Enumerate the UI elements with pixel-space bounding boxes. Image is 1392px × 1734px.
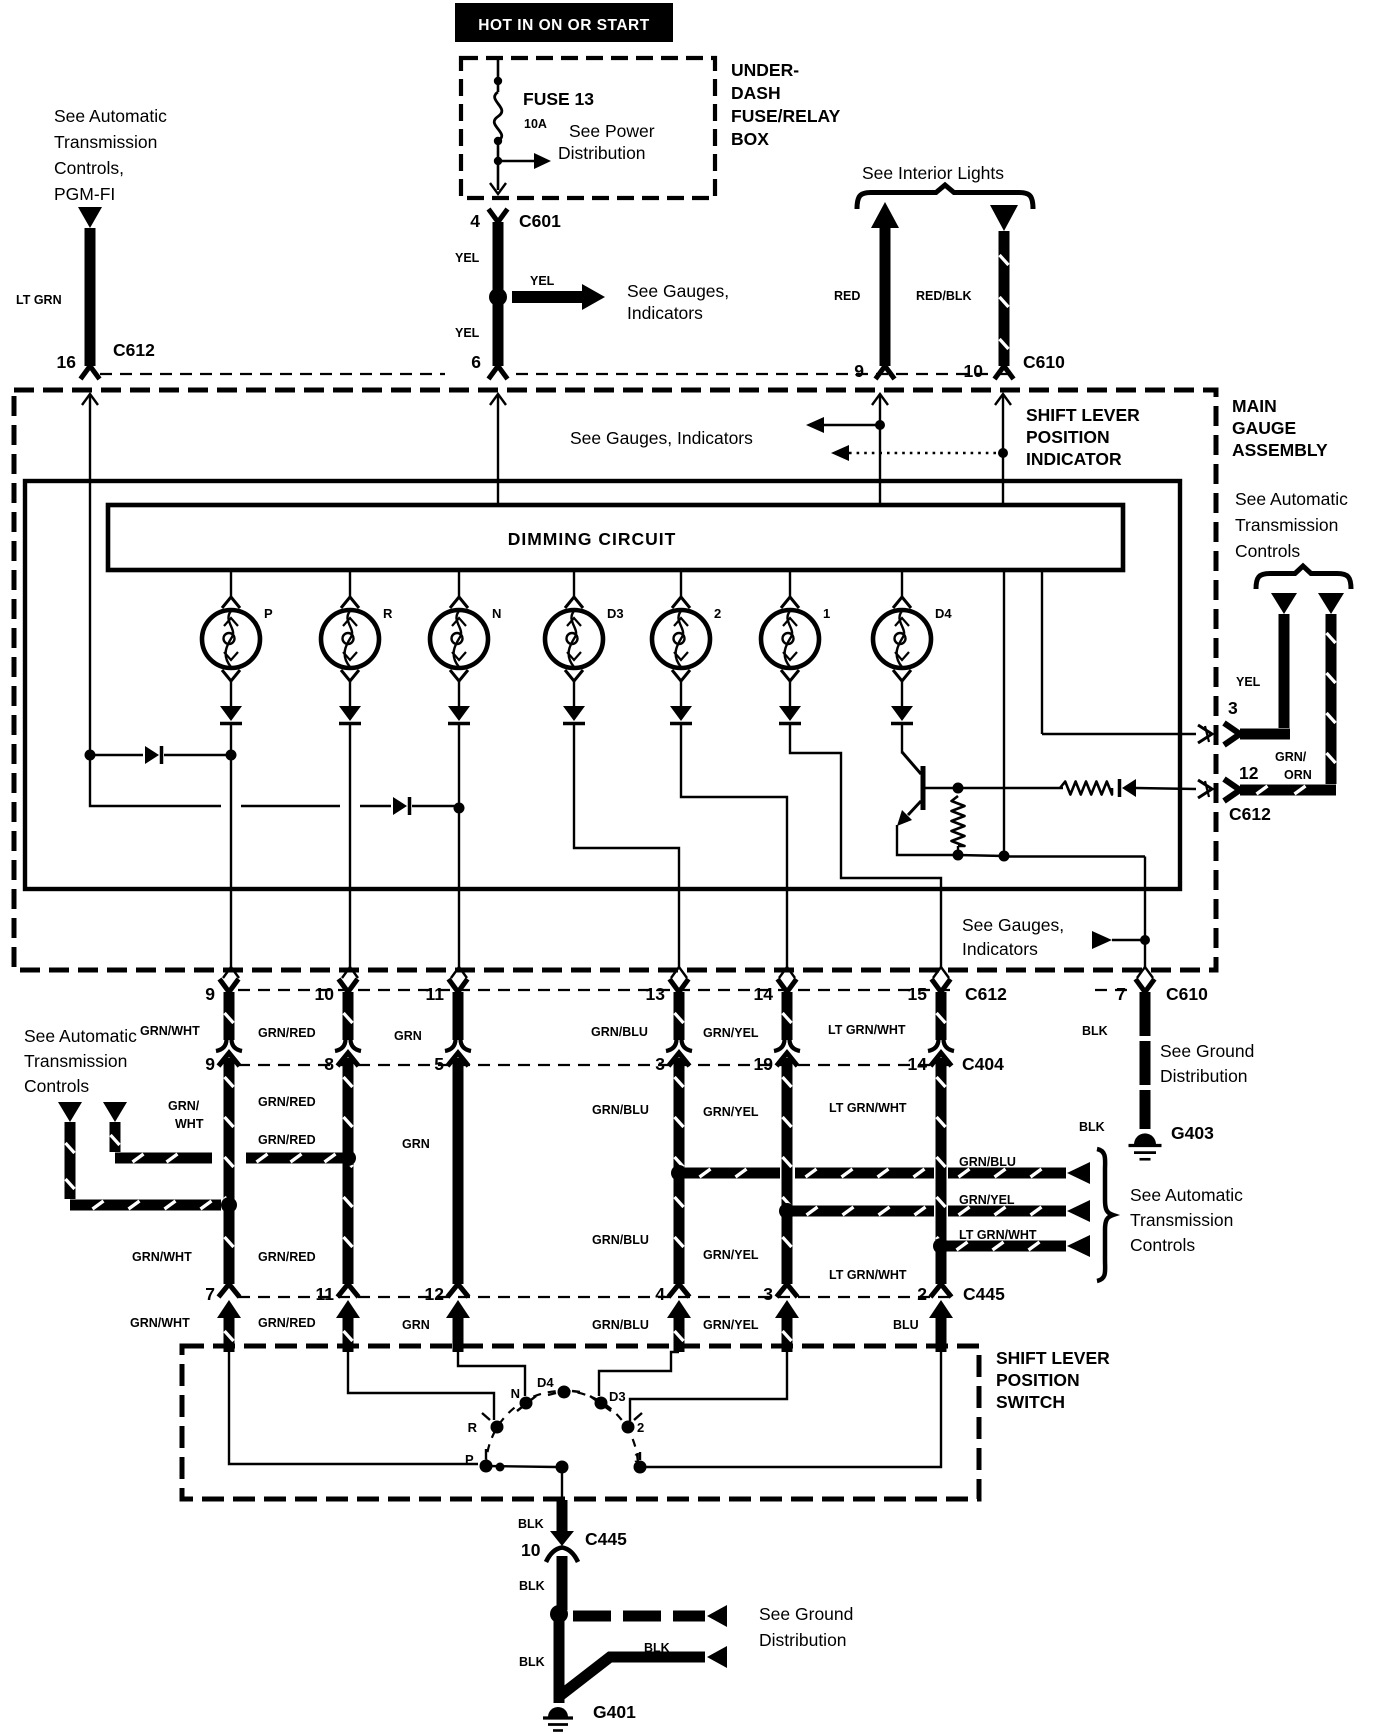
svg-text:7: 7 bbox=[1116, 984, 1126, 1004]
svg-text:ASSEMBLY: ASSEMBLY bbox=[1232, 440, 1328, 460]
svg-text:11: 11 bbox=[426, 984, 445, 1004]
diode below lamp D3 bbox=[563, 706, 585, 721]
svg-text:10: 10 bbox=[521, 1540, 541, 1560]
svg-text:See Automatic: See Automatic bbox=[1235, 489, 1348, 509]
junction bbox=[953, 783, 964, 794]
junction bbox=[550, 1605, 568, 1623]
wire YEL to C612-3 bbox=[1279, 614, 1290, 728]
svg-text:GAUGE: GAUGE bbox=[1232, 418, 1296, 438]
svg-text:2: 2 bbox=[637, 1420, 644, 1435]
diode below lamp D4 bbox=[891, 706, 913, 721]
wire dimming to lamp N bbox=[458, 570, 460, 597]
wire resistor chain to C612-3 bbox=[1041, 570, 1043, 734]
svg-text:10: 10 bbox=[315, 984, 335, 1004]
dimming circuit box bbox=[108, 505, 1123, 570]
wire GRN C612-11 to C404-5 bbox=[453, 992, 464, 1040]
diode D-c bbox=[1122, 779, 1136, 797]
junction bbox=[953, 850, 964, 861]
svg-text:DIMMING CIRCUIT: DIMMING CIRCUIT bbox=[508, 529, 677, 549]
inner gauge circuit box bbox=[25, 481, 1180, 889]
svg-text:14: 14 bbox=[754, 984, 774, 1004]
svg-text:GRN/BLU: GRN/BLU bbox=[959, 1155, 1016, 1169]
svg-text:N: N bbox=[511, 1386, 520, 1401]
wire from C601-6 into box bbox=[490, 394, 506, 405]
svg-text:C612: C612 bbox=[113, 340, 155, 360]
wire left bus from C612-16 bbox=[85, 750, 96, 761]
switch contact R bbox=[491, 1421, 504, 1434]
svg-text:ORN: ORN bbox=[1284, 768, 1312, 782]
svg-text:SHIFT LEVER: SHIFT LEVER bbox=[1026, 405, 1140, 425]
svg-text:Distribution: Distribution bbox=[759, 1630, 847, 1650]
svg-text:D4: D4 bbox=[935, 606, 952, 621]
svg-text:P: P bbox=[264, 606, 273, 621]
svg-text:C612: C612 bbox=[1229, 804, 1271, 824]
svg-text:2: 2 bbox=[714, 606, 721, 621]
svg-text:4: 4 bbox=[470, 211, 480, 231]
svg-text:See Automatic: See Automatic bbox=[54, 106, 167, 126]
wire lamp P to diode bbox=[230, 681, 232, 706]
wire GRN/WHT C612-9 to C404-9 bbox=[224, 992, 235, 1040]
wire lamp 2 column jog bbox=[681, 724, 787, 968]
svg-text:Transmission: Transmission bbox=[1130, 1210, 1233, 1230]
svg-text:3: 3 bbox=[655, 1054, 665, 1074]
svg-text:5: 5 bbox=[434, 1054, 444, 1074]
svg-text:GRN/BLU: GRN/BLU bbox=[592, 1318, 649, 1332]
wire C445-7 to switch P bbox=[229, 1352, 478, 1464]
svg-text:6: 6 bbox=[471, 352, 481, 372]
svg-text:BLK: BLK bbox=[644, 1641, 670, 1655]
brace bbox=[1256, 566, 1351, 589]
svg-text:BLK: BLK bbox=[519, 1579, 545, 1593]
brace bbox=[1097, 1149, 1113, 1281]
svg-text:14: 14 bbox=[908, 1054, 928, 1074]
svg-text:C445: C445 bbox=[963, 1284, 1005, 1304]
wire GRN/BLU C612-13 to C404-3 bbox=[674, 992, 685, 1040]
lamp N bbox=[430, 610, 488, 668]
wire C445-12 to switch N bbox=[458, 1352, 525, 1396]
svg-text:RED/BLK: RED/BLK bbox=[916, 289, 972, 303]
svg-text:BLK: BLK bbox=[519, 1655, 545, 1669]
svg-text:GRN/YEL: GRN/YEL bbox=[703, 1105, 759, 1119]
wire YEL junction to C601 pin 6 bbox=[493, 303, 504, 366]
svg-text:Controls,: Controls, bbox=[54, 158, 124, 178]
svg-text:13: 13 bbox=[646, 984, 666, 1004]
wire dashed BLK to See Ground Distribution bbox=[573, 1611, 705, 1622]
svg-text:9: 9 bbox=[205, 1054, 215, 1074]
wire YEL C601-4 to junction bbox=[493, 222, 504, 292]
main gauge assembly box (dashed) bbox=[14, 390, 1216, 970]
svg-text:G401: G401 bbox=[593, 1702, 636, 1722]
wire BLK branch to See Ground Distribution bbox=[561, 1657, 705, 1695]
svg-text:See Gauges,: See Gauges, bbox=[627, 281, 729, 301]
svg-text:Indicators: Indicators bbox=[962, 939, 1038, 959]
svg-text:3: 3 bbox=[1228, 698, 1238, 718]
junction bbox=[1140, 935, 1150, 945]
wire YEL arrow to See Gauges Indicators bbox=[512, 291, 582, 303]
shift lever position switch box (dashed) bbox=[182, 1346, 979, 1499]
svg-text:See Ground: See Ground bbox=[759, 1604, 853, 1624]
junction bbox=[671, 1165, 687, 1181]
svg-text:16: 16 bbox=[57, 352, 77, 372]
wire LT GRN/WHT C404-14 to C445-2 bbox=[936, 1058, 947, 1284]
svg-text:See Interior Lights: See Interior Lights bbox=[862, 163, 1004, 183]
svg-text:GRN: GRN bbox=[394, 1029, 422, 1043]
wire GRN/YEL branch to ATC bbox=[792, 1206, 934, 1217]
svg-text:POSITION: POSITION bbox=[1026, 427, 1110, 447]
wire GRN/BLU C404-3 to C445-4 bbox=[674, 1058, 685, 1284]
wire lamp R column to pin 10 bbox=[349, 724, 351, 968]
svg-text:GRN: GRN bbox=[402, 1137, 430, 1151]
svg-text:12: 12 bbox=[425, 1284, 445, 1304]
transistor Q1 bbox=[921, 766, 926, 810]
svg-text:LT GRN/WHT: LT GRN/WHT bbox=[959, 1228, 1037, 1242]
svg-text:C601: C601 bbox=[519, 211, 561, 231]
switch contact 1 bbox=[634, 1461, 647, 1474]
svg-text:D4: D4 bbox=[537, 1375, 554, 1390]
svg-text:GRN/BLU: GRN/BLU bbox=[592, 1103, 649, 1117]
svg-text:BLK: BLK bbox=[518, 1517, 544, 1531]
svg-text:19: 19 bbox=[754, 1054, 774, 1074]
wire GRN/WHT C404-9 to C445-7 bbox=[224, 1058, 235, 1284]
svg-text:GRN/WHT: GRN/WHT bbox=[140, 1024, 200, 1038]
wire node to C610-7 bbox=[1144, 857, 1146, 968]
wire from C612-16 into box bbox=[82, 394, 98, 405]
junction bbox=[933, 1238, 949, 1254]
svg-text:GRN/YEL: GRN/YEL bbox=[959, 1193, 1015, 1207]
svg-text:GRN/RED: GRN/RED bbox=[258, 1316, 316, 1330]
svg-text:G403: G403 bbox=[1171, 1123, 1214, 1143]
junction bbox=[489, 288, 507, 306]
resistor R2 (base-emitter) bbox=[952, 796, 965, 846]
under-dash fuse/relay box (dashed) bbox=[461, 58, 715, 198]
svg-text:1: 1 bbox=[823, 606, 830, 621]
svg-text:UNDER-: UNDER- bbox=[731, 60, 799, 80]
wire GRN/RED C612-10 to C404-8 bbox=[343, 992, 354, 1040]
lamp P bbox=[202, 610, 260, 668]
junction bbox=[494, 157, 502, 165]
svg-text:12: 12 bbox=[1239, 763, 1259, 783]
svg-text:GRN/RED: GRN/RED bbox=[258, 1095, 316, 1109]
junction bbox=[494, 77, 502, 85]
diode below lamp N bbox=[448, 706, 470, 721]
brace bbox=[857, 185, 1033, 209]
svg-text:C610: C610 bbox=[1023, 352, 1065, 372]
wire LT GRN/WHT branch to ATC bbox=[946, 1241, 1066, 1252]
svg-text:11: 11 bbox=[316, 1284, 335, 1304]
svg-text:SWITCH: SWITCH bbox=[996, 1392, 1065, 1412]
diode below lamp 1 bbox=[779, 706, 801, 721]
svg-text:7: 7 bbox=[205, 1284, 215, 1304]
wire GRN/RED branch crossover bbox=[110, 1122, 121, 1152]
wire C445-11 to switch R bbox=[348, 1352, 494, 1420]
svg-text:BOX: BOX bbox=[731, 129, 769, 149]
svg-text:GRN/BLU: GRN/BLU bbox=[592, 1233, 649, 1247]
svg-text:INDICATOR: INDICATOR bbox=[1026, 449, 1122, 469]
svg-text:See Gauges,: See Gauges, bbox=[962, 915, 1064, 935]
wire dimming to lamp D4 bbox=[901, 570, 903, 597]
svg-text:See Automatic: See Automatic bbox=[24, 1026, 137, 1046]
resistor R1 bbox=[1060, 782, 1112, 795]
wire GRN C404-5 to C445-12 bbox=[453, 1058, 464, 1284]
wire left bus lower bbox=[90, 755, 221, 806]
arrow GRN/RED from ATC bbox=[103, 1102, 127, 1122]
wire C445-2 to switch 1 bbox=[646, 1352, 941, 1467]
wire lamp R to diode bbox=[349, 681, 351, 706]
wire RED/BLK C610 pin 10 bbox=[990, 205, 1018, 231]
wire GRN/WHT branch bbox=[65, 1122, 76, 1199]
junction bbox=[454, 803, 465, 814]
connector C610 pin7 row line bbox=[1095, 989, 1132, 991]
wire C445-4 to switch D3 bbox=[599, 1352, 679, 1396]
wire common to C445-10 bbox=[561, 1467, 563, 1502]
svg-text:R: R bbox=[383, 606, 393, 621]
svg-text:LT GRN/WHT: LT GRN/WHT bbox=[829, 1268, 907, 1282]
arrow from PGM-FI bbox=[78, 207, 102, 228]
svg-text:GRN/RED: GRN/RED bbox=[258, 1250, 316, 1264]
lamp 2 bbox=[652, 610, 710, 668]
svg-text:GRN/: GRN/ bbox=[1275, 750, 1307, 764]
svg-text:FUSE/RELAY: FUSE/RELAY bbox=[731, 106, 841, 126]
svg-text:YEL: YEL bbox=[1236, 675, 1261, 689]
switch contact D3 bbox=[595, 1397, 608, 1410]
svg-text:FUSE 13: FUSE 13 bbox=[523, 89, 594, 109]
wire dimming to lamp R bbox=[349, 570, 351, 597]
svg-text:9: 9 bbox=[854, 361, 864, 381]
junction bbox=[340, 1150, 356, 1166]
arrow see gauges 1 bbox=[806, 417, 824, 433]
svg-text:Transmission: Transmission bbox=[24, 1051, 127, 1071]
junction bbox=[226, 750, 237, 761]
wire LT GRN bbox=[85, 228, 96, 366]
connector C445 row line bbox=[238, 1296, 950, 1298]
wire lamp P column to pin 9 bbox=[230, 724, 232, 968]
svg-text:GRN/BLU: GRN/BLU bbox=[591, 1025, 648, 1039]
svg-text:Distribution: Distribution bbox=[558, 143, 646, 163]
wire BLK to junction bbox=[557, 1556, 568, 1610]
svg-text:HOT IN ON OR START: HOT IN ON OR START bbox=[478, 17, 649, 34]
wire lamp D3 to diode bbox=[573, 681, 575, 706]
svg-text:D3: D3 bbox=[609, 1389, 626, 1404]
svg-text:Transmission: Transmission bbox=[1235, 515, 1338, 535]
svg-text:Indicators: Indicators bbox=[627, 303, 703, 323]
wire BLK to G401 bbox=[554, 1614, 565, 1703]
svg-text:2: 2 bbox=[917, 1284, 927, 1304]
wire base to C612-12 bbox=[963, 787, 1063, 789]
switch contact D4 bbox=[558, 1386, 571, 1399]
svg-text:1: 1 bbox=[634, 1450, 641, 1465]
wire GRN/BLU branch to ATC bbox=[685, 1168, 780, 1179]
svg-text:See Gauges, Indicators: See Gauges, Indicators bbox=[570, 428, 753, 448]
svg-text:P: P bbox=[465, 1452, 474, 1467]
wire lamp 1 column jog bbox=[790, 724, 941, 968]
svg-text:See Ground: See Ground bbox=[1160, 1041, 1254, 1061]
svg-text:GRN/: GRN/ bbox=[168, 1099, 200, 1113]
ground G401 bbox=[548, 1707, 568, 1717]
svg-text:GRN/YEL: GRN/YEL bbox=[703, 1318, 759, 1332]
wire LT GRN/WHT C612-15 to C404-14 bbox=[936, 992, 947, 1040]
connector row line (top) bbox=[100, 373, 445, 375]
diode D-a bbox=[90, 754, 143, 756]
svg-text:Transmission: Transmission bbox=[54, 132, 157, 152]
wire GRN/YEL C612-14 to C404-19 bbox=[782, 992, 793, 1040]
switch contact N bbox=[520, 1397, 533, 1410]
svg-text:LT GRN/WHT: LT GRN/WHT bbox=[829, 1101, 907, 1115]
wire lamp N to diode bbox=[458, 681, 460, 706]
lamp D3 bbox=[545, 610, 603, 668]
wire BLK C610-7 to G403 bbox=[1140, 992, 1151, 1129]
ground G403 bbox=[1134, 1133, 1156, 1144]
junction bbox=[496, 1463, 505, 1472]
svg-text:GRN/WHT: GRN/WHT bbox=[130, 1316, 190, 1330]
svg-text:10A: 10A bbox=[524, 117, 547, 131]
dotted link see gauges 2 bbox=[831, 445, 849, 461]
wire dimming to lamp 1 bbox=[789, 570, 791, 597]
diode below lamp R bbox=[339, 706, 361, 721]
wire from C610-9 into box bbox=[872, 394, 888, 405]
svg-text:MAIN: MAIN bbox=[1232, 396, 1277, 416]
svg-text:BLK: BLK bbox=[1079, 1120, 1105, 1134]
svg-text:Controls: Controls bbox=[1235, 541, 1300, 561]
arrow into C601 bbox=[490, 183, 506, 194]
wire lamp D4 to diode bbox=[901, 681, 903, 706]
svg-text:D3: D3 bbox=[607, 606, 624, 621]
wire from C610-10 into box bbox=[995, 394, 1011, 405]
svg-text:GRN/YEL: GRN/YEL bbox=[703, 1026, 759, 1040]
svg-text:C404: C404 bbox=[962, 1054, 1004, 1074]
lamp D4 bbox=[873, 610, 931, 668]
svg-text:YEL: YEL bbox=[455, 326, 480, 340]
svg-text:Controls: Controls bbox=[1130, 1235, 1195, 1255]
svg-text:POSITION: POSITION bbox=[996, 1370, 1080, 1390]
svg-text:Distribution: Distribution bbox=[1160, 1066, 1248, 1086]
lamp 1 bbox=[761, 610, 819, 668]
arrow YEL from ATC bbox=[1271, 593, 1297, 614]
svg-text:RED: RED bbox=[834, 289, 860, 303]
junction bbox=[999, 851, 1010, 862]
diode below lamp P bbox=[220, 706, 242, 721]
wire GRN/RED C404-8 to C445-11 bbox=[343, 1058, 354, 1284]
svg-text:DASH: DASH bbox=[731, 83, 781, 103]
svg-text:WHT: WHT bbox=[175, 1117, 204, 1131]
switch rotor arc bbox=[486, 1391, 638, 1467]
connector C612 row line bbox=[238, 989, 950, 991]
switch contact P bbox=[480, 1460, 493, 1473]
svg-text:R: R bbox=[468, 1420, 478, 1435]
svg-text:GRN/RED: GRN/RED bbox=[258, 1133, 316, 1147]
wire dimming to lamp 2 bbox=[680, 570, 682, 597]
wire lamp 1 to diode bbox=[789, 681, 791, 706]
wire RED C610 pin 9 bbox=[871, 202, 899, 228]
connector C445 pin 10 bbox=[550, 1531, 574, 1546]
svg-text:4: 4 bbox=[655, 1284, 665, 1304]
svg-text:9: 9 bbox=[205, 984, 215, 1004]
svg-text:8: 8 bbox=[324, 1054, 334, 1074]
arrow GRN/WHT from ATC bbox=[58, 1102, 82, 1122]
svg-text:SHIFT LEVER: SHIFT LEVER bbox=[996, 1348, 1110, 1368]
wire dimming to lamp D3 bbox=[573, 570, 575, 597]
svg-text:BLU: BLU bbox=[893, 1318, 919, 1332]
svg-text:3: 3 bbox=[763, 1284, 773, 1304]
svg-text:See Automatic: See Automatic bbox=[1130, 1185, 1243, 1205]
svg-text:C445: C445 bbox=[585, 1529, 627, 1549]
wire transistor base bbox=[925, 787, 958, 789]
wire emitter to bus bbox=[897, 825, 958, 855]
junction bbox=[494, 137, 502, 145]
junction bbox=[998, 448, 1008, 458]
junction bbox=[875, 420, 885, 430]
wire lamp D3 column jog bbox=[574, 724, 679, 968]
wire fuse feed bbox=[497, 60, 500, 92]
wire C445-3 to switch 2 bbox=[630, 1352, 787, 1421]
arrow to node bbox=[1092, 931, 1112, 949]
svg-text:LT GRN: LT GRN bbox=[16, 293, 62, 307]
svg-text:PGM-FI: PGM-FI bbox=[54, 184, 115, 204]
svg-text:15: 15 bbox=[908, 984, 928, 1004]
junction bbox=[779, 1203, 795, 1219]
wire dimming to lamp P bbox=[230, 570, 232, 597]
junction bbox=[221, 1197, 237, 1213]
wire GRN/ORN to C612-12 bbox=[1326, 614, 1337, 784]
svg-text:YEL: YEL bbox=[455, 251, 480, 265]
wire D4 to transistor collector bbox=[901, 724, 903, 754]
power label HOT IN ON OR START bbox=[455, 3, 673, 42]
wire lamp N column to pin 11 bbox=[458, 724, 460, 968]
svg-text:YEL: YEL bbox=[530, 274, 555, 288]
switch contact 2 bbox=[622, 1421, 635, 1434]
diode D-b bbox=[393, 797, 407, 815]
svg-text:BLK: BLK bbox=[1082, 1024, 1108, 1038]
wire P to common bbox=[486, 1466, 556, 1467]
diode below lamp 2 bbox=[670, 706, 692, 721]
svg-text:Controls: Controls bbox=[24, 1076, 89, 1096]
wires C445 to switch box bbox=[217, 1300, 241, 1318]
wire branch arrow to See Power Distribution bbox=[498, 160, 534, 163]
svg-text:GRN/WHT: GRN/WHT bbox=[132, 1250, 192, 1264]
wire GRN/YEL C404-19 to C445-3 bbox=[782, 1058, 793, 1284]
arrow GRN/ORN from ATC bbox=[1318, 593, 1344, 614]
connector C404 row line bbox=[238, 1064, 950, 1066]
svg-text:GRN: GRN bbox=[402, 1318, 430, 1332]
svg-text:GRN/RED: GRN/RED bbox=[258, 1026, 316, 1040]
wire dimming to node bbox=[1003, 570, 1005, 856]
switch common node bbox=[556, 1461, 569, 1474]
fuse F13 symbol bbox=[494, 92, 502, 141]
svg-text:LT GRN/WHT: LT GRN/WHT bbox=[828, 1023, 906, 1037]
svg-text:10: 10 bbox=[964, 361, 984, 381]
svg-text:C610: C610 bbox=[1166, 984, 1208, 1004]
svg-text:GRN/YEL: GRN/YEL bbox=[703, 1248, 759, 1262]
svg-text:See Power: See Power bbox=[569, 121, 655, 141]
svg-text:N: N bbox=[492, 606, 501, 621]
wire lamp 2 to diode bbox=[680, 681, 682, 706]
svg-text:C612: C612 bbox=[965, 984, 1007, 1004]
lamp R bbox=[321, 610, 379, 668]
